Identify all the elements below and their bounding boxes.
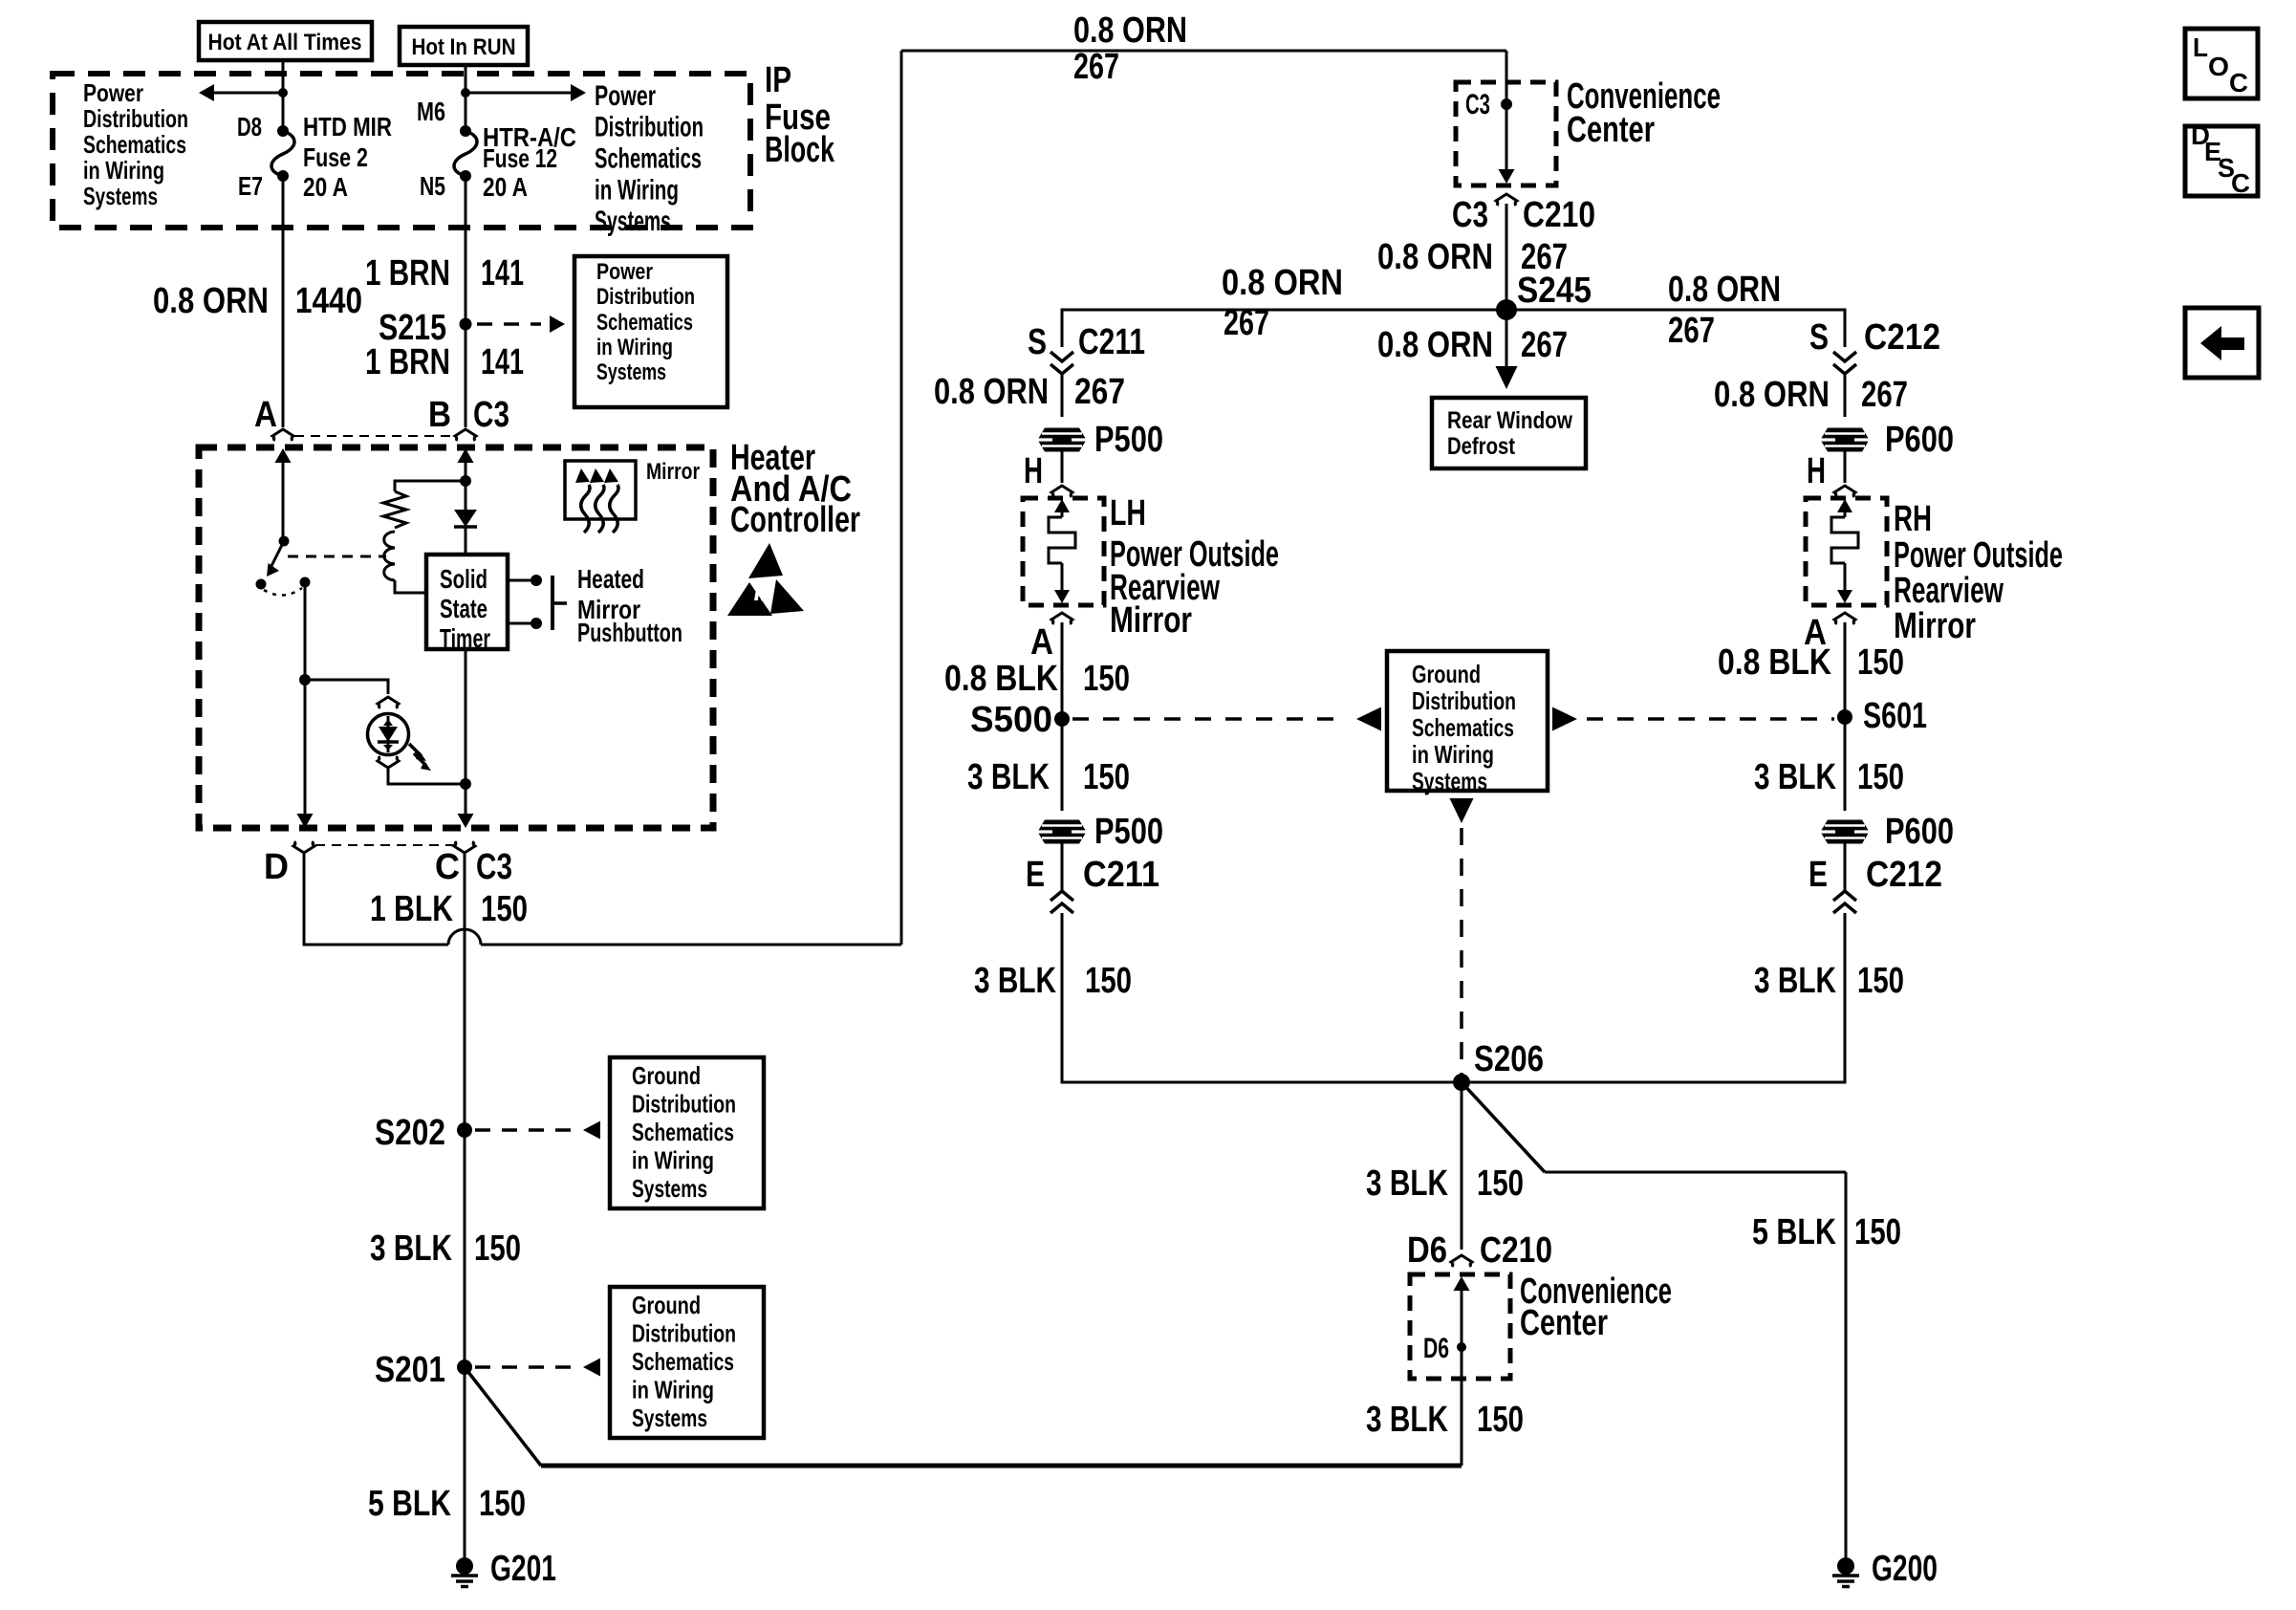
wire 3 BLK 150 (C211 to S206 bus) xyxy=(1062,913,1454,1082)
svg-text:3 BLK: 3 BLK xyxy=(370,1229,452,1269)
wire P500 to LH mirror xyxy=(1061,451,1064,483)
svg-text:267: 267 xyxy=(1224,303,1269,343)
svg-text:in Wiring: in Wiring xyxy=(596,335,673,360)
svg-text:IP: IP xyxy=(765,60,791,100)
back arrow nav box xyxy=(2185,308,2259,378)
relay coil xyxy=(384,532,395,580)
svg-text:Power: Power xyxy=(595,80,656,112)
node to timer lamp branch xyxy=(300,577,311,588)
svg-text:3 BLK: 3 BLK xyxy=(1754,757,1836,797)
svg-text:State: State xyxy=(440,594,487,623)
svg-text:5 BLK: 5 BLK xyxy=(1752,1212,1836,1252)
svg-text:Distribution: Distribution xyxy=(1412,686,1516,715)
svg-text:in Wiring: in Wiring xyxy=(632,1376,714,1404)
Hot At All Times label box xyxy=(199,22,372,60)
timer output pin upper xyxy=(508,579,531,582)
svg-text:267: 267 xyxy=(1861,375,1908,415)
junction timer-lamp return xyxy=(460,778,471,790)
connector C3 pin C exit arrow xyxy=(458,814,474,828)
svg-text:A: A xyxy=(254,395,277,435)
lamp light emission arrows xyxy=(409,744,422,756)
connector C3 pin B entry arrow xyxy=(458,448,474,463)
svg-text:in Wiring: in Wiring xyxy=(83,156,164,185)
pass-through grommet P600 (feed) xyxy=(1821,428,1870,452)
reference box Ground Distribution Schematics in Wiring Systems (S202) xyxy=(610,1057,764,1208)
switch pivot xyxy=(279,536,290,547)
splice S206 xyxy=(1453,1074,1470,1091)
connector C211 inline symbol (E) xyxy=(1051,903,1073,913)
wire S201 branch bus xyxy=(541,1464,1462,1469)
connector C3 pin C socket xyxy=(454,841,475,853)
svg-text:E: E xyxy=(1809,855,1828,895)
wire 5 BLK 150 (bus to G200) xyxy=(1845,1172,1848,1557)
Hot In RUN label box xyxy=(400,27,528,65)
svg-text:C3: C3 xyxy=(473,395,509,435)
solid state timer box U1 xyxy=(426,555,508,649)
svg-text:Mirror: Mirror xyxy=(1894,606,1976,646)
svg-text:Distribution: Distribution xyxy=(632,1090,736,1119)
wire D to ground bus xyxy=(304,853,448,945)
svg-text:150: 150 xyxy=(1854,1212,1901,1252)
svg-text:C: C xyxy=(2231,168,2250,198)
svg-text:3 BLK: 3 BLK xyxy=(1366,1400,1448,1440)
indicator lamp DS1 (LED in circle) xyxy=(368,714,409,755)
svg-text:Center: Center xyxy=(1520,1303,1608,1343)
svg-text:150: 150 xyxy=(1477,1164,1524,1204)
svg-text:150: 150 xyxy=(474,1229,521,1269)
connector C3 dashed link A-B xyxy=(294,435,456,437)
wire riser to top bus xyxy=(900,51,903,945)
lamp connector fork lower xyxy=(378,756,399,768)
wire 3 BLK 150 (C212 to S206 bus) xyxy=(1469,913,1845,1082)
svg-text:H: H xyxy=(1807,451,1826,491)
svg-text:141: 141 xyxy=(481,342,524,382)
svg-text:0.8 ORN: 0.8 ORN xyxy=(1377,325,1493,365)
RH mirror exit arrow xyxy=(1844,563,1847,590)
svg-text:Schematics: Schematics xyxy=(1412,713,1514,742)
svg-text:Distribution: Distribution xyxy=(595,112,704,143)
junction lamp branch xyxy=(299,674,311,685)
svg-text:Schematics: Schematics xyxy=(83,130,186,159)
svg-text:P500: P500 xyxy=(1094,812,1163,852)
arrow to power distribution (left) xyxy=(214,92,283,95)
splice S500 xyxy=(1054,711,1070,727)
svg-text:Mirror: Mirror xyxy=(1110,600,1192,641)
svg-text:in Wiring: in Wiring xyxy=(632,1146,714,1175)
wire S201 diagonal to convenience return xyxy=(465,1367,541,1466)
svg-text:20 A: 20 A xyxy=(483,172,528,202)
wire P600 to RH mirror xyxy=(1844,451,1847,483)
splice S201 xyxy=(457,1360,472,1375)
splice S601 xyxy=(1837,709,1852,725)
splice S202 xyxy=(457,1122,472,1138)
wire 5 BLK 150 (S201 to G201) xyxy=(464,1367,466,1557)
wire 1 BRN 141 lower (S215 to B) xyxy=(465,324,467,427)
svg-text:C3: C3 xyxy=(1465,89,1490,120)
wire lamp branch vertical xyxy=(304,582,307,819)
svg-text:N5: N5 xyxy=(420,171,445,201)
svg-text:Schematics: Schematics xyxy=(596,310,693,336)
svg-text:141: 141 xyxy=(481,253,524,294)
svg-text:0.8 ORN: 0.8 ORN xyxy=(153,281,269,321)
connector C210 socket (bottom) xyxy=(1451,1255,1472,1267)
svg-text:150: 150 xyxy=(1083,659,1130,699)
svg-text:0.8 ORN: 0.8 ORN xyxy=(1714,375,1830,415)
svg-text:Defrost: Defrost xyxy=(1447,433,1516,460)
wire from Hot At All Times to Fuse 2 xyxy=(282,60,285,131)
svg-text:in Wiring: in Wiring xyxy=(1412,740,1494,769)
switch arm (heated mirror switch) xyxy=(271,541,284,568)
switch throw dotted arc xyxy=(264,588,302,596)
wire 3 BLK 150 (S601 to P600) xyxy=(1844,717,1847,811)
junction at B wire and resistor branch xyxy=(460,475,471,487)
svg-text:A: A xyxy=(1030,622,1053,663)
svg-text:150: 150 xyxy=(1083,757,1130,797)
connector H socket (LH) xyxy=(1051,486,1072,497)
svg-text:Solid: Solid xyxy=(440,564,487,594)
svg-text:3 BLK: 3 BLK xyxy=(1754,961,1836,1001)
svg-text:C: C xyxy=(2229,68,2248,98)
junction inside convenience center (D6) xyxy=(1457,1342,1466,1352)
pass-through grommet P500 (return) xyxy=(1038,820,1087,844)
ground distribution box to S206 arrow xyxy=(1450,798,1474,823)
LOC nav box xyxy=(2185,29,2258,98)
wire coil to solid state timer xyxy=(395,580,426,593)
RH mirror heater element xyxy=(1831,517,1858,563)
svg-text:Ground: Ground xyxy=(1412,660,1481,688)
junction on HTR-A/C feed xyxy=(461,88,470,98)
svg-text:Rearview: Rearview xyxy=(1894,571,2004,611)
svg-text:S201: S201 xyxy=(375,1350,445,1390)
connector C3 pin A entry arrow xyxy=(275,448,292,463)
svg-text:in Wiring: in Wiring xyxy=(595,175,679,207)
LH mirror heater element xyxy=(1049,517,1075,563)
wire 3 BLK 150 (S202 to S201) xyxy=(464,1130,466,1367)
splice S215 xyxy=(460,318,472,331)
svg-text:C211: C211 xyxy=(1078,322,1145,362)
svg-text:267: 267 xyxy=(1521,325,1568,365)
wire ground bus to riser xyxy=(481,944,901,946)
svg-text:Schematics: Schematics xyxy=(595,143,702,175)
svg-text:C: C xyxy=(435,847,460,887)
svg-text:150: 150 xyxy=(481,889,528,929)
svg-text:HTD MIR: HTD MIR xyxy=(303,112,392,141)
connector A socket (LH) xyxy=(1051,613,1072,624)
svg-text:E: E xyxy=(1026,855,1045,895)
LH mirror dashed boundary xyxy=(1023,498,1104,605)
lamp connector fork upper xyxy=(378,697,399,708)
svg-text:3 BLK: 3 BLK xyxy=(967,757,1050,797)
svg-text:150: 150 xyxy=(1857,961,1904,1001)
wire 0.8 ORN 267 down to defrost xyxy=(1505,310,1508,366)
svg-text:0.8 ORN: 0.8 ORN xyxy=(1377,237,1493,277)
svg-text:Power: Power xyxy=(596,259,653,285)
svg-text:P600: P600 xyxy=(1885,812,1954,852)
svg-text:E7: E7 xyxy=(238,171,263,201)
wire lamp to timer output xyxy=(388,768,466,784)
svg-text:Controller: Controller xyxy=(730,500,860,540)
pass-through grommet P600 (return) xyxy=(1821,820,1870,844)
connector C212 inline symbol (S) xyxy=(1833,352,1856,361)
connector C3 dashed link D-C xyxy=(315,844,454,846)
svg-text:P500: P500 xyxy=(1094,420,1163,460)
svg-text:M6: M6 xyxy=(417,97,445,126)
svg-text:S: S xyxy=(1028,322,1047,362)
wire 3 BLK 150 (convenience center to S201 bus) xyxy=(1461,1379,1463,1466)
reference box Ground Distribution Schematics in Wiring Systems (S500/S601) xyxy=(1387,651,1548,791)
svg-text:Ground: Ground xyxy=(632,1061,701,1090)
svg-text:150: 150 xyxy=(1857,642,1904,683)
svg-text:5 BLK: 5 BLK xyxy=(368,1484,451,1524)
svg-text:C3: C3 xyxy=(1452,195,1488,235)
wire 1 BRN 141 upper (fuse12 to S215) xyxy=(465,176,467,324)
svg-text:S206: S206 xyxy=(1474,1039,1544,1079)
svg-text:S: S xyxy=(1809,317,1829,358)
connector H socket (RH) xyxy=(1834,486,1855,497)
connector C3 pin B socket xyxy=(455,429,476,441)
svg-text:D6: D6 xyxy=(1423,1333,1449,1364)
svg-text:LH: LH xyxy=(1110,493,1146,533)
resistor (zigzag) xyxy=(383,491,406,528)
svg-text:Block: Block xyxy=(765,130,835,170)
DESC nav box xyxy=(2185,126,2258,196)
svg-text:20 A: 20 A xyxy=(303,172,348,202)
svg-text:0.8 ORN: 0.8 ORN xyxy=(934,372,1049,412)
wire C down (1 BLK 150) xyxy=(464,853,466,1122)
convenience center exit arrow xyxy=(1499,169,1515,184)
fuse F2 HTD MIR element xyxy=(277,125,289,137)
svg-text:150: 150 xyxy=(1085,961,1132,1001)
connector C210 socket (top) xyxy=(1496,194,1517,206)
svg-text:Schematics: Schematics xyxy=(632,1347,734,1376)
dashed reference S601 from ground distribution box xyxy=(1552,707,1577,731)
svg-text:Distribution: Distribution xyxy=(83,104,188,133)
svg-text:Systems: Systems xyxy=(632,1403,707,1432)
svg-text:Distribution: Distribution xyxy=(632,1319,736,1348)
Convenience Center dashed boundary (C3) xyxy=(1505,51,1508,82)
svg-text:Systems: Systems xyxy=(83,182,158,210)
svg-text:Fuse 2: Fuse 2 xyxy=(303,142,368,172)
svg-text:Schematics: Schematics xyxy=(632,1118,734,1146)
svg-text:C210: C210 xyxy=(1480,1230,1552,1271)
svg-text:Center: Center xyxy=(1567,110,1655,150)
svg-text:C211: C211 xyxy=(1083,855,1159,895)
RH mirror entry arrow xyxy=(1837,499,1852,512)
wire 0.8 ORN 267 top bus xyxy=(901,50,1506,53)
RH mirror dashed boundary xyxy=(1806,498,1887,605)
convenience center entry arrow (D6) xyxy=(1454,1276,1470,1291)
svg-text:150: 150 xyxy=(1857,757,1904,797)
connector C3 pin D exit arrow xyxy=(297,814,314,828)
wire from Hot In RUN to Fuse 12 xyxy=(465,65,467,131)
dashed reference S500 to ground distribution box xyxy=(1072,717,1346,721)
pass-through grommet P500 (feed) xyxy=(1038,428,1087,452)
svg-text:0.8 ORN: 0.8 ORN xyxy=(1222,263,1343,303)
svg-text:Ground: Ground xyxy=(632,1291,701,1319)
wire 3 BLK 150 (S206 to C210) xyxy=(1461,1082,1463,1250)
heated mirror element box (Mirror) xyxy=(565,461,636,519)
svg-text:1 BRN: 1 BRN xyxy=(365,253,450,294)
svg-text:Distribution: Distribution xyxy=(596,284,695,310)
svg-text:3 BLK: 3 BLK xyxy=(974,961,1056,1001)
junction on HTD MIR feed xyxy=(278,88,288,98)
svg-text:D: D xyxy=(264,847,289,887)
svg-text:S500: S500 xyxy=(970,700,1052,740)
svg-text:150: 150 xyxy=(1477,1400,1524,1440)
svg-text:S202: S202 xyxy=(375,1113,445,1153)
reference box Power Distribution Schematics in Wiring Systems xyxy=(574,256,727,407)
diode CR1 xyxy=(454,510,477,527)
wire 0.8 ORN 267 (C210 to S245) xyxy=(1505,204,1508,310)
svg-text:C210: C210 xyxy=(1523,195,1595,235)
wire B to diode xyxy=(465,481,467,510)
svg-text:1 BLK: 1 BLK xyxy=(370,889,453,929)
connector C211 inline symbol (S) xyxy=(1051,352,1073,361)
wire 0.8 ORN 267 branch right (S245 to C212) xyxy=(1506,310,1845,347)
fuse F12 HTR-A/C element xyxy=(460,125,471,137)
svg-text:C212: C212 xyxy=(1864,317,1940,358)
mechanical link switch to relay coil (dashed) xyxy=(288,555,386,558)
svg-text:0.8 BLK: 0.8 BLK xyxy=(944,659,1058,699)
wire 0.8 BLK 150 (LH mirror to S500) xyxy=(1061,622,1064,719)
dashed reference arrow S215 to power distribution box xyxy=(477,322,541,326)
ground G200 xyxy=(1837,1557,1854,1575)
svg-text:267: 267 xyxy=(1073,47,1119,87)
svg-text:S601: S601 xyxy=(1863,696,1927,736)
svg-text:S245: S245 xyxy=(1517,271,1592,311)
junction inside convenience center xyxy=(1501,98,1512,110)
svg-text:267: 267 xyxy=(1668,311,1715,351)
svg-text:H: H xyxy=(1024,451,1043,491)
svg-text:D8: D8 xyxy=(237,112,262,141)
svg-text:Hot At All Times: Hot At All Times xyxy=(208,30,362,55)
wire to indicator lamp xyxy=(305,680,388,694)
wire 3 BLK 150 (S500 to P500) xyxy=(1061,719,1064,811)
branch wire to resistor top xyxy=(395,481,466,491)
arrow to power distribution (right) xyxy=(466,92,571,95)
svg-text:C212: C212 xyxy=(1866,855,1942,895)
wire timer bottom to C xyxy=(465,649,467,819)
splice S245 xyxy=(1496,299,1517,320)
connector A socket (RH) xyxy=(1834,613,1855,624)
svg-text:150: 150 xyxy=(479,1484,526,1524)
LH mirror entry arrow xyxy=(1054,499,1070,512)
arrow into rear window defrost xyxy=(1496,366,1518,389)
svg-text:Power Outside: Power Outside xyxy=(1894,535,2063,576)
connector C212 inline symbol (E) xyxy=(1833,903,1856,913)
wire P500 to C211 (return) xyxy=(1061,843,1064,891)
svg-text:3 BLK: 3 BLK xyxy=(1366,1164,1448,1204)
wire S206 diagonal to G200 bus xyxy=(1462,1082,1545,1172)
svg-text:0.8 ORN: 0.8 ORN xyxy=(1073,11,1187,51)
switch contact xyxy=(256,579,267,590)
svg-text:267: 267 xyxy=(1074,372,1125,412)
reference box Ground Distribution Schematics in Wiring Systems (S201) xyxy=(610,1287,764,1438)
wire P600 to C212 (return) xyxy=(1844,843,1847,891)
svg-text:Timer: Timer xyxy=(440,623,490,653)
ESD sensitivity symbol xyxy=(748,543,783,578)
svg-text:P600: P600 xyxy=(1885,420,1954,460)
svg-text:Fuse 12: Fuse 12 xyxy=(483,143,557,173)
IP Fuse Block dashed boundary xyxy=(53,74,750,228)
connector C3 pin D socket xyxy=(293,841,314,853)
wire 0.8 BLK 150 (RH mirror to S601) xyxy=(1844,622,1847,717)
LH mirror exit arrow xyxy=(1061,563,1064,590)
svg-text:O: O xyxy=(2208,52,2229,81)
ground G201 xyxy=(456,1557,473,1575)
wire diode to timer xyxy=(465,527,467,555)
svg-text:Heated: Heated xyxy=(577,564,644,594)
svg-text:1 BRN: 1 BRN xyxy=(365,342,450,382)
wire hop over C wire xyxy=(448,929,481,945)
svg-text:C3: C3 xyxy=(476,847,512,887)
connector C3 pin A socket xyxy=(272,429,293,441)
Rear Window Defrost box xyxy=(1432,398,1586,468)
svg-text:0.8 BLK: 0.8 BLK xyxy=(1718,642,1831,683)
heater wave arrows xyxy=(581,485,590,533)
wire G200 bus xyxy=(1545,1171,1846,1174)
svg-text:Systems: Systems xyxy=(595,206,671,237)
dashed reference arrow S201 to ground distribution box xyxy=(475,1365,577,1369)
Convenience Center dashed boundary (D6) xyxy=(1410,1274,1510,1379)
svg-text:RH: RH xyxy=(1894,499,1932,539)
svg-text:Power: Power xyxy=(83,78,143,107)
svg-text:Mirror: Mirror xyxy=(646,459,700,485)
svg-text:L: L xyxy=(2193,33,2208,62)
svg-text:1440: 1440 xyxy=(295,281,362,321)
svg-text:Rear Window: Rear Window xyxy=(1447,407,1572,434)
svg-text:D6: D6 xyxy=(1407,1230,1447,1271)
svg-text:B: B xyxy=(428,395,451,435)
svg-text:0.8 ORN: 0.8 ORN xyxy=(1668,270,1781,310)
dashed reference arrow S202 to ground distribution box xyxy=(475,1128,577,1132)
pushbutton SW1 (heated mirror pushbutton) xyxy=(551,576,554,630)
svg-text:G201: G201 xyxy=(490,1549,556,1589)
svg-text:Systems: Systems xyxy=(632,1174,707,1203)
svg-text:Pushbutton: Pushbutton xyxy=(577,618,682,647)
svg-text:Systems: Systems xyxy=(1412,767,1487,795)
wire 0.8 ORN 267 branch left (S245 to C211) xyxy=(1062,310,1506,347)
timer output pin lower xyxy=(508,622,531,625)
svg-text:Hot In RUN: Hot In RUN xyxy=(412,34,516,60)
svg-text:G200: G200 xyxy=(1872,1549,1938,1589)
wire 0.8 ORN 1440 (fuse2 to A) xyxy=(282,176,285,427)
Heater And A/C Controller dashed boundary xyxy=(199,447,713,828)
svg-text:Systems: Systems xyxy=(596,359,666,385)
